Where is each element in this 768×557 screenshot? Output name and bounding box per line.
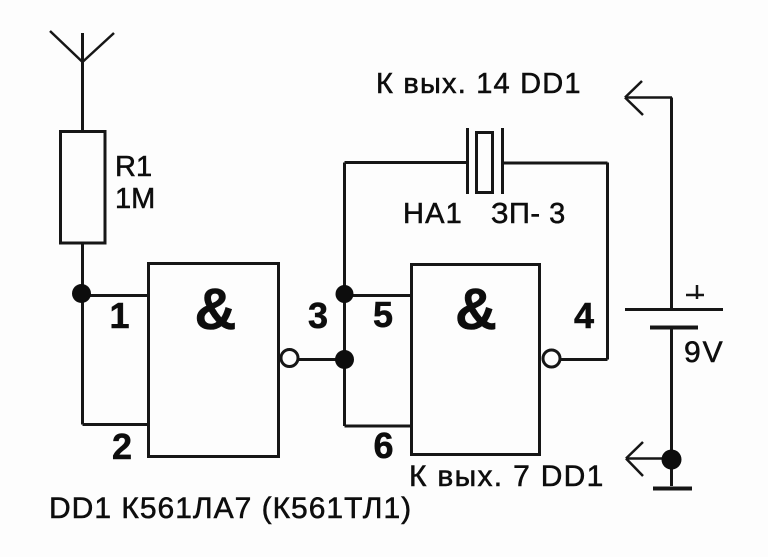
svg-text:К вых. 7 DD1: К вых. 7 DD1 (409, 460, 605, 493)
svg-text:К вых. 14 DD1: К вых. 14 DD1 (376, 68, 582, 100)
svg-text:&: & (195, 277, 237, 342)
svg-text:DD1 К561ЛА7 (К561ТЛ1): DD1 К561ЛА7 (К561ТЛ1) (49, 492, 412, 525)
svg-text:5: 5 (373, 294, 393, 335)
svg-text:1: 1 (109, 295, 129, 336)
svg-text:ЗП- 3: ЗП- 3 (491, 198, 566, 230)
svg-text:R1: R1 (115, 151, 152, 183)
svg-text:&: & (455, 277, 497, 342)
svg-text:6: 6 (373, 425, 393, 466)
svg-text:3: 3 (308, 295, 328, 336)
svg-text:2: 2 (112, 426, 132, 467)
svg-text:НА1: НА1 (403, 198, 463, 230)
svg-text:9V: 9V (684, 336, 725, 369)
svg-text:1М: 1М (115, 183, 155, 215)
svg-text:4: 4 (574, 295, 594, 336)
